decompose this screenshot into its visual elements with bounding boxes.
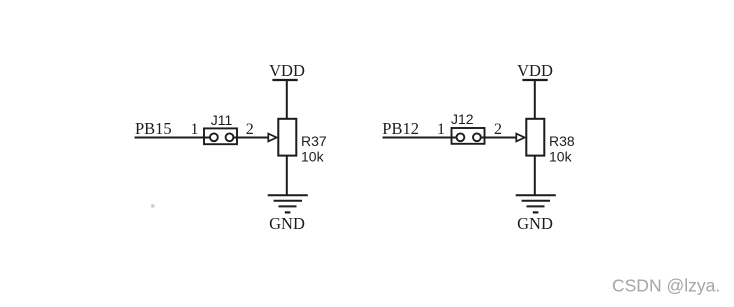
svg-text:10k: 10k (549, 149, 573, 165)
wire PB15 to J11 pin 1 (135, 137, 211, 139)
stray mark (151, 204, 154, 207)
wire R38 bottom to ground (534, 156, 536, 196)
wire VDD to R37 top (286, 80, 288, 119)
wire R37 bottom to ground (286, 156, 288, 196)
svg-text:2: 2 (494, 121, 502, 138)
jumper J12 (452, 128, 485, 144)
resistor R38 potentiometer (516, 119, 544, 156)
svg-text:1: 1 (437, 121, 445, 138)
wire J12 pin 2 to R38 wiper (481, 137, 517, 139)
power VDD left (269, 61, 305, 80)
svg-text:PB12: PB12 (382, 119, 419, 138)
svg-text:10k: 10k (301, 149, 325, 165)
svg-text:J12: J12 (451, 111, 474, 127)
wire PB12 to J12 pin 1 (383, 137, 459, 139)
svg-text:R37: R37 (301, 133, 327, 149)
wire J11 pin 2 to R37 wiper (234, 137, 269, 139)
resistor R37 potentiometer (268, 119, 296, 156)
svg-text:2: 2 (246, 121, 254, 138)
svg-text:GND: GND (517, 214, 553, 233)
power VDD right (517, 61, 553, 80)
svg-text:GND: GND (269, 214, 305, 233)
svg-text:R38: R38 (549, 133, 575, 149)
svg-text:CSDN @lzya.: CSDN @lzya. (612, 276, 720, 296)
svg-text:J11: J11 (211, 112, 233, 128)
wire VDD to R38 top (534, 80, 536, 119)
svg-text:1: 1 (191, 121, 199, 138)
ground left (268, 195, 308, 233)
jumper J11 (204, 128, 237, 144)
svg-text:VDD: VDD (269, 61, 305, 80)
svg-text:PB15: PB15 (135, 119, 172, 138)
ground right (516, 195, 556, 233)
svg-text:VDD: VDD (517, 61, 553, 80)
